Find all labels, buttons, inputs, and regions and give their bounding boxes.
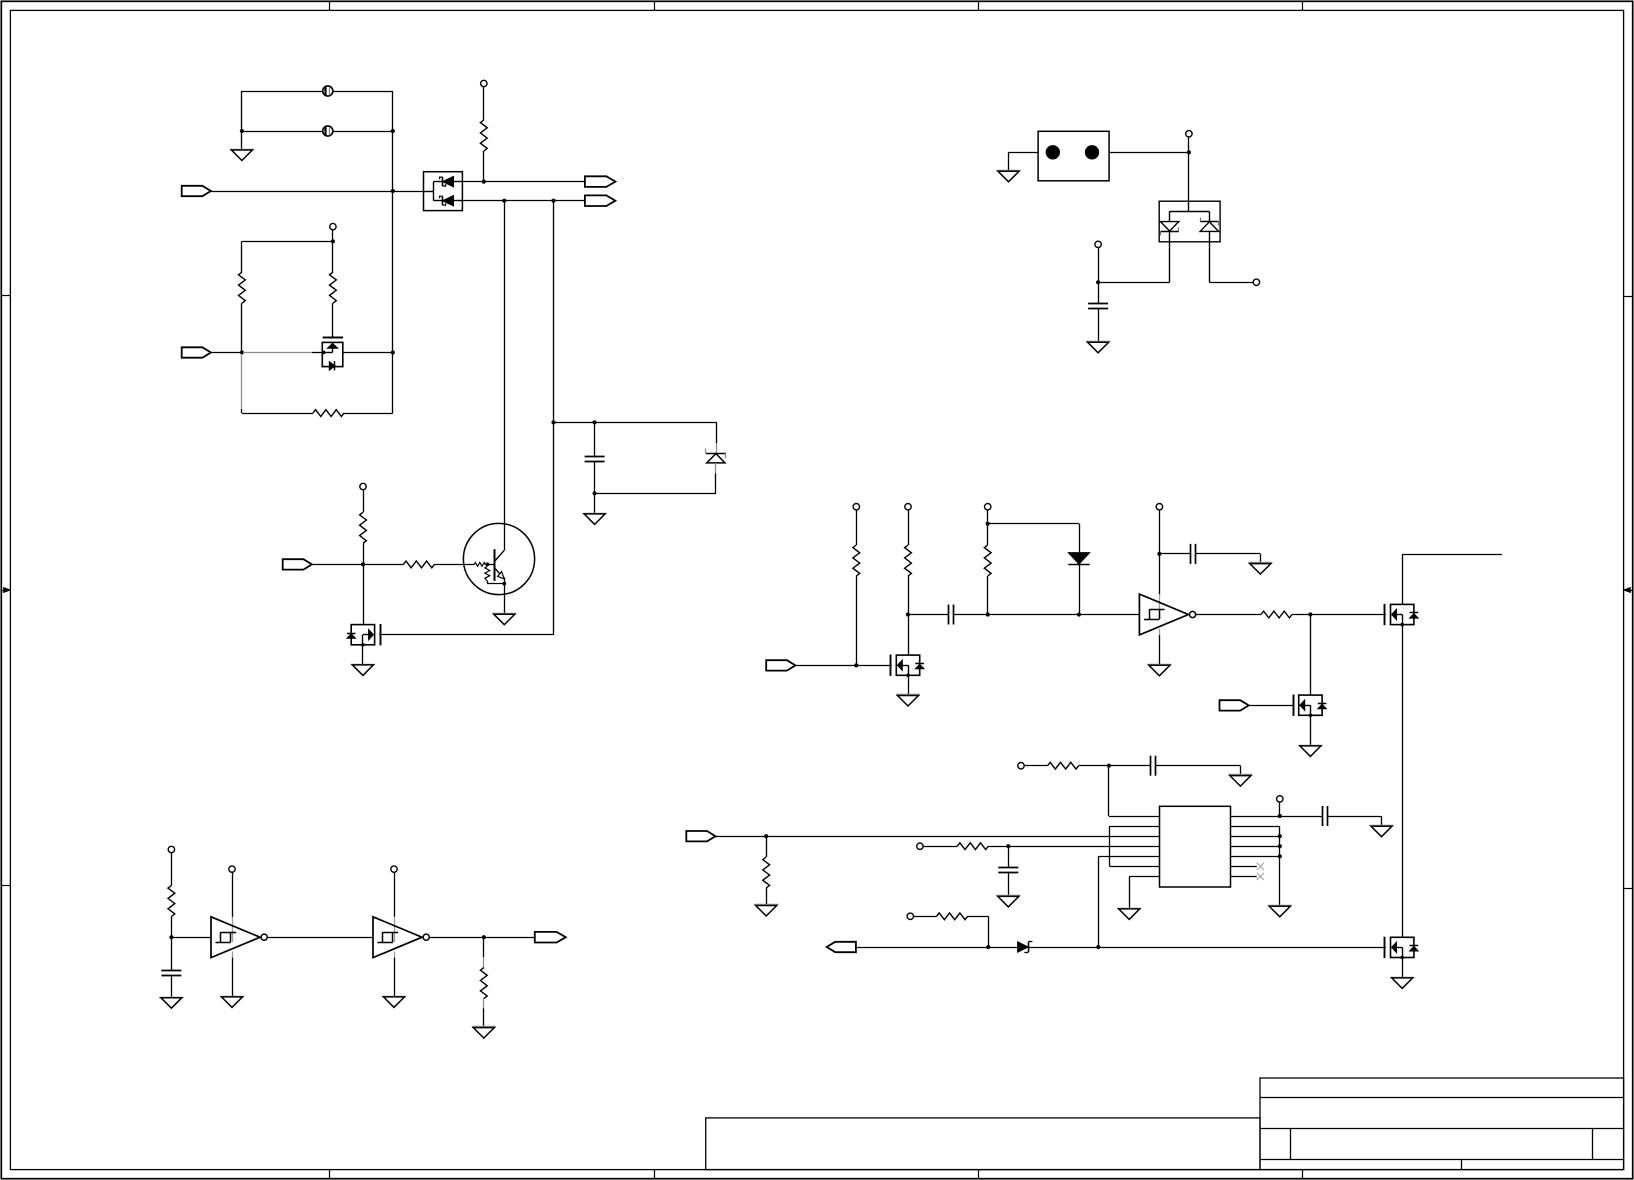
wire D3 top lead [1079,524,1081,553]
resistor R6 [403,561,434,568]
ground Q3 [896,694,920,696]
title block main rectangle [706,1118,1260,1170]
wire node to U3 input [171,937,211,939]
wire node down grey [241,354,243,409]
wire U3 to U4 [266,937,373,939]
wire R16 to ground [483,999,485,1009]
wire top link [242,241,333,243]
wire J1 left to ground [1009,152,1039,154]
wire TP8 to R11 [1024,765,1047,767]
ground Q2 [351,664,375,666]
frame zone ticks bottom [329,1170,331,1179]
transistor Q7 digital npn [463,523,534,594]
inverter U4 schmitt [394,917,396,942]
ground C1 [583,513,607,515]
wire branch to zener D2 [554,422,717,424]
wire R2 upper lead [241,241,243,272]
node RC junction top [1107,764,1111,768]
transistor Q5 n-mosfet [1299,695,1322,715]
wire TP12 to R15 [171,853,173,886]
ground C7 [159,997,183,999]
wire TP7 to U1 power [1159,510,1161,594]
wire pin2-pin6 link [1110,826,1160,828]
terminal TP4 [853,504,859,510]
node cap C1 bottom [593,491,597,495]
zener D4 [1018,942,1029,952]
connector P7 input [1220,700,1249,710]
wire R1 to out1 [483,151,485,182]
capacitor C5 [1008,846,1010,868]
ground C5 [996,895,1020,897]
transistor Q4 n-mosfet [1391,604,1414,624]
wire node to Q3 drain [908,615,910,656]
terminal TP5 [905,504,911,510]
node out1-resistor [482,180,486,184]
resistor R8 [905,545,912,576]
terminal TP9 [917,843,923,849]
wire TP3 node to Q2 drain [363,564,365,624]
node bus-mosfet [391,350,395,354]
wire fuse F1 left [242,91,323,93]
resistor R5 [360,512,367,543]
capacitor C4 [1150,756,1152,776]
wire U1 output to R10 [1195,614,1261,616]
frame zone ticks left [1,295,10,297]
wire TP2 to R3 [332,230,334,272]
wire Q2 source to ground [362,645,364,665]
wire C3 to ground [1260,554,1262,564]
capacitor C3 decoupling [1159,553,1190,555]
wire Q6 source to ground [1402,958,1404,978]
node pin8 junction [1278,814,1282,818]
resistor R13 [957,843,988,850]
node RC junction mid [1006,844,1010,848]
wire main bus vertical [392,91,394,413]
fuse F1 [323,86,333,96]
wire pin14 no-connect [1231,876,1257,878]
title block cell divider a [1290,1128,1292,1159]
ground U4 [382,996,406,998]
connector P10 output [535,932,566,943]
node bus-fuse2 [391,129,395,133]
wire P4 to node [211,352,242,354]
wire J1 right to node [1109,152,1189,154]
node U1 power junction [1157,552,1161,556]
fuse F2 [323,126,333,136]
wire R13 to pin4 [988,846,1159,848]
wire R10 to node [1292,614,1386,616]
resistor R2 [239,272,246,303]
wire TP4 to R7 [856,510,858,545]
wire D1 to output P2 [462,181,585,183]
transistor Q2 n-mosfet [351,625,374,645]
terminal TP14 [391,866,397,872]
wire C1 to ground [594,493,596,514]
wire pin5 to bottom net [1098,856,1159,858]
wire TP13 to U3 power [232,872,234,917]
resistor R4 [313,410,344,417]
ground pins bus [1268,905,1292,907]
node pins junction a [1278,834,1282,838]
terminal TP3 [360,483,366,489]
title block row line 2 [1260,1128,1624,1130]
node out2-collector [502,199,506,203]
wire pin12 right [1231,856,1280,858]
node zener branch [551,420,555,424]
wire node to R6 [363,564,403,566]
ground Q6 [1390,977,1414,979]
frame centering arrow left [1,590,6,592]
resistor R9 [984,545,991,576]
wire U4 ground pin [394,958,396,997]
terminal TP17 [1253,279,1259,285]
node R14 junction [986,945,990,949]
terminal TP15 [1186,131,1192,137]
title block cell divider b [1592,1128,1594,1159]
wire Q4 drain to output bus [1402,554,1404,604]
wire U3 ground pin [232,958,234,997]
wire TP5 to R8 [908,510,910,545]
wire TP6 down [987,510,989,524]
wire fuse left vertical [241,91,243,150]
resistor R3 [330,272,337,303]
resistor R11 [1048,762,1079,769]
wire TP15 down [1188,137,1190,152]
node TVS top junction [1187,150,1191,154]
wire bus2 vertical lower [553,422,555,634]
terminal TP1 [481,80,487,86]
ground C8 [1086,341,1110,343]
wire TP11 to R14 [914,916,937,918]
terminal TP10 [1277,796,1283,802]
wire R3 to Q1 gate [332,303,334,337]
wire Q1 to bus [343,352,393,354]
zener D2 [706,453,726,455]
resistor R14 [937,913,968,920]
wire node to pin1 [1108,766,1110,816]
wire C8 to ground [1098,308,1100,342]
ground pin7 [1117,908,1141,910]
wire right pins bus [1279,826,1281,906]
wire fuse F2 right [333,131,393,133]
inverter U3 schmitt [232,917,234,942]
wire TVS right to terminal [1209,282,1253,284]
diode D3 [1068,553,1089,565]
wire P1 to diode D1 [211,191,424,193]
wire C7 to ground [171,975,173,997]
wire branch to D3 [988,523,1079,525]
capacitor C1 [594,422,596,456]
wire TP3 to R5 [363,490,365,513]
wire zener bottom lead [715,463,717,473]
wire R12 to ground [766,888,768,906]
terminal TP13 [229,866,235,872]
node input2 junction [240,350,244,354]
node pins junction b [1278,844,1282,848]
wire R14 to node [968,916,989,918]
TVS D5 dual zener [1159,201,1220,242]
wire TP10 down [1279,802,1281,816]
node TVS cap junction [1096,280,1100,284]
wire TP16 down [1098,248,1100,283]
wire Q3 source to ground [908,675,910,695]
ground R16 [472,1026,496,1028]
transistor Q3 n-mosfet [896,655,919,675]
wire R9 leads [987,524,989,545]
ground U1 [1147,664,1171,666]
resistor R1 [480,120,487,151]
wire fuse F2 left [242,131,323,133]
wire node to Q5 drain [1310,615,1312,696]
node gate input junction [854,663,858,667]
wire U1 ground pin [1159,635,1161,665]
wire pin11 right [1231,846,1280,848]
wire pin13 no-connect [1231,866,1257,868]
wire zener top lead [716,422,718,443]
title block cell divider c [1461,1159,1463,1170]
connector P3 output [585,195,616,206]
capacitor C8 [1098,282,1100,303]
wire R4 to bus [344,413,393,415]
wire Q5 source to ground [1310,715,1312,746]
node pins junction c [1278,854,1282,858]
terminal TP2 [330,223,336,229]
wire TP9 to R13 [923,846,957,848]
node bus-input [391,189,395,193]
capacitor C2 series [908,614,949,616]
wire C6 to ground [1327,816,1382,818]
connector P1 input [182,186,211,196]
wire C4 to ground [1156,765,1241,767]
node fuse junction [240,129,244,133]
node R9 junction [986,612,990,616]
capacitor C6 [1280,816,1322,818]
node gate drive junction [1308,612,1312,616]
node gate-top junction [331,239,335,243]
wire zener to cap bottom [595,493,716,495]
wire R5 to base node [363,543,365,564]
wire Q4 source down [1402,625,1404,938]
diode D1 dual schottky [424,172,463,211]
node diode branch [986,522,990,526]
wire bus2 vertical upper [553,201,555,423]
ground fuse block [230,149,254,151]
node bottom junction [1096,945,1100,949]
wire R11 to node [1079,765,1151,767]
node pulldown junction [764,834,768,838]
wire node to R16 [483,937,485,957]
node drain junction [906,612,910,616]
connector P5 input [283,559,312,569]
wire U4 to output P10 [428,937,534,939]
comparator U1 schmitt inverter [1159,594,1161,619]
ground C4 [1228,774,1252,776]
wire bus2 to Q2 gate [379,634,553,636]
wire P8 to pin3 [716,836,1160,838]
resistor R10 [1261,611,1292,618]
node cap C1 top [593,420,597,424]
wire TP1 to R1 [483,87,485,120]
wire pin9 right [1231,826,1280,828]
connector P2 output [585,176,616,187]
ground C3 [1248,562,1272,564]
ground C6 [1370,825,1394,827]
terminal TP7 [1156,504,1162,510]
frame zone ticks right [1624,296,1633,298]
wire R2 lower lead [241,303,243,352]
ground Q7 [492,613,516,615]
wire pin7 to ground [1129,876,1159,878]
wire fuse F1 right [333,91,393,93]
wire R8 to drain node [908,576,910,615]
transistor Q1 p-mosfet [323,337,344,339]
terminal TP11 [907,913,913,919]
wire TVS left to cap node [1098,282,1170,284]
ground J1 [997,170,1021,172]
wire TP14 to U4 power [394,872,396,917]
transistor Q6 n-mosfet [1391,937,1414,957]
resistor R15 [168,886,175,917]
ground R12 [754,904,778,906]
frame zone ticks top [329,1,331,10]
wire node to Q1 grey [243,352,312,354]
wire R7 to input node [856,576,858,665]
terminal TP6 [985,504,991,510]
wire node to R12 [766,836,768,857]
wire P6 to Q3 gate [795,665,892,667]
wire collector vertical [504,201,506,551]
wire D4 to Q6 gate [1028,947,1385,949]
connector P8 input [686,831,715,841]
node RC chain junction [169,935,173,939]
wire node to TVS D5 [1188,152,1190,201]
wire pin8 right [1231,816,1280,818]
node base junction [361,562,365,566]
ground U3 [220,996,244,998]
wire pin10 right [1231,836,1280,838]
title block row line 3 [1260,1159,1624,1161]
terminal TP16 [1095,241,1101,247]
frame centering arrow right [1628,590,1633,592]
wire emitter to ground [504,578,506,615]
wire P9 to node [855,947,1017,949]
resistor R16 [480,968,487,999]
terminal TP12 [168,846,174,852]
resistor R7 [853,545,860,576]
IC U2 [1160,806,1231,887]
title block row line 1 [1260,1097,1624,1099]
capacitor C7 [171,937,173,970]
wire bottom to R4 [242,413,313,415]
wire to comparator input [988,614,1140,616]
connector P9 output [827,942,856,952]
wire P7 to Q5 gate [1249,705,1294,707]
resistor R12 [763,857,770,888]
wire R6 to Q7 base [434,564,474,566]
terminal TP8 [1018,763,1024,769]
wire C5 to ground [1008,873,1010,897]
title block right section [1260,1078,1624,1170]
node out2-bus2 [551,199,555,203]
node output pulldown junction [482,935,486,939]
wire P5 to node [312,564,363,566]
wire D1 to output P3 [462,200,585,202]
wire D3 bottom lead [1079,564,1081,614]
connector P6 input [766,660,795,670]
ground Q5 [1298,745,1322,747]
node D3 junction [1077,612,1081,616]
wire R15 to node [171,917,173,938]
connector P4 input [182,347,211,357]
connector J1 power jack [1038,131,1109,181]
